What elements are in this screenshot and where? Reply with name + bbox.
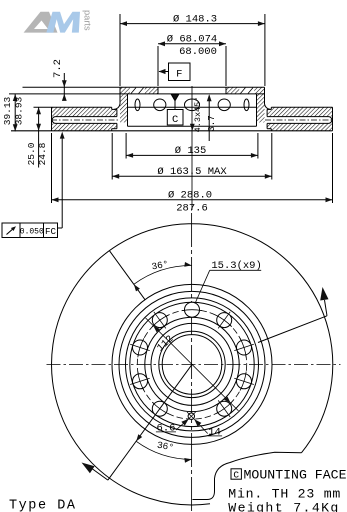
svg-text:7.2: 7.2 [52,59,64,78]
svg-text:Min. TH 23 mm: Min. TH 23 mm [228,486,340,501]
hat plate right edge [264,87,266,104]
left vent slot [56,116,117,118]
datum C reference box (mounting face note) [231,469,241,479]
hat plate left edge [119,87,121,104]
rotation arrow top-right [325,300,328,316]
right ring outer edge [332,107,334,131]
logo AM parts [24,10,93,33]
runout feature control frame [2,223,58,238]
right vent slot centreline [265,119,334,121]
right ring ledge step [270,107,272,109]
wheel bolt holes 15.3 x9 [185,302,200,317]
bolt hole countersink marks in hat plate [131,88,144,94]
svg-text:68.000: 68.000 [179,46,217,58]
datum F frame [169,63,191,81]
dim 135 extension lines [125,133,127,159]
svg-text:14: 14 [208,427,221,439]
svg-text:Ø 148.3: Ø 148.3 [173,14,217,26]
ring back top edge seen through opening [128,106,257,108]
rotation arrow bottom-left [92,469,108,481]
ring bottom face line [11,130,333,132]
mounting-face cut outline [192,452,301,499]
hat top face line [23,86,265,88]
dim 163.5 line [112,175,272,177]
dim 4.3x45 leader [190,124,195,131]
dim 7.2 leader [63,73,65,101]
svg-text:C: C [172,114,178,126]
dim 68.074 extension lines [157,46,159,86]
runout leader [61,134,63,228]
bolt circle 112 (dashed) [137,310,246,419]
svg-text:287.6: 287.6 [176,202,208,214]
dim 135 line [126,154,258,156]
dim 39.13/38.93 line [14,94,16,131]
svg-text:25.0: 25.0 [26,142,37,165]
hub concentric circles [162,335,222,395]
dim 148.3 extension lines [119,14,121,86]
dim 112 diameter line [146,318,239,411]
hatch: hat plate segments [120,87,130,94]
dim 163.5 extension lines [111,133,113,180]
locating hole 6.6 [188,413,194,419]
right vent slot [267,116,328,118]
svg-text:39.13: 39.13 [2,96,13,125]
dim 288 line [52,199,333,201]
radial leader to rotation arrow top-right [258,316,327,343]
svg-text:0.050: 0.050 [20,227,44,236]
svg-text:3.7: 3.7 [207,115,217,131]
right ring top face [271,106,332,108]
dim 25.0/24.8 line [38,107,40,167]
svg-text:parts: parts [83,10,93,31]
hatch: left ring top band [52,107,112,116]
svg-text:FC: FC [45,226,57,237]
section vertical centreline [191,86,193,210]
svg-text:Ø 135: Ø 135 [175,145,207,157]
dim 36 bottom arc [136,441,191,459]
dim 148.3 line [120,23,265,25]
svg-text:Ø 288.0: Ø 288.0 [168,189,212,201]
left ring top face [34,106,112,108]
datum C symbol [171,94,179,101]
svg-text:24.8: 24.8 [37,142,48,165]
dim 68.074 line [158,43,226,45]
bore edge verticals in plate [157,87,159,94]
svg-text:6.6: 6.6 [157,423,176,435]
hatch: left ring bottom band [52,123,112,130]
left ring outer edge [51,107,53,131]
svg-text:Ø 68.074: Ø 68.074 [167,33,217,45]
svg-text:Ø 163.5 MAX: Ø 163.5 MAX [157,166,227,178]
hatch: hat walls [120,94,128,123]
svg-text:Weight 7.4Kg: Weight 7.4Kg [228,501,338,512]
radial line upper-left (36 deg) [110,251,146,300]
svg-text:38.93: 38.93 [13,96,24,125]
svg-text:MOUNTING FACE: MOUNTING FACE [244,468,347,483]
hat rim edge seen through opening [128,125,257,127]
dim 3.7 leader [208,96,210,142]
radial line through lower-left hole to rotation arrow [108,364,192,480]
disc outer diameter arc [52,224,333,505]
left vent slot centreline [51,119,119,121]
dim 288 extension lines [51,133,53,203]
hat wall inner edges [127,94,129,126]
bottom view vertical centreline [191,213,193,512]
bottom view horizontal centreline [47,363,341,365]
svg-text:4.3x45°: 4.3x45° [193,97,203,133]
left ring ledge step [111,107,113,109]
bolt holes seen through hat opening [135,99,140,111]
hat mounting face line [9,93,265,95]
dim 36 top arc [134,265,192,284]
svg-text:C: C [233,470,239,481]
svg-text:F: F [176,68,182,80]
hatch: right ring top band [271,107,332,116]
hatch: right ring bottom band [271,123,332,130]
